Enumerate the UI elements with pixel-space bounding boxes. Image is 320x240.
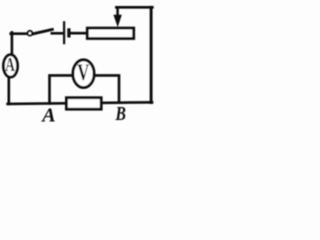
switch S blade [33, 29, 53, 34]
svg-text:V: V [77, 60, 89, 85]
battery short plate [67, 28, 70, 37]
rheostat arrow head [113, 15, 121, 27]
battery long plate [63, 21, 65, 44]
rheostat arrow shaft [116, 7, 119, 17]
resistor R body [66, 98, 101, 110]
battery cell [64, 21, 69, 44]
wire switch to battery [52, 32, 64, 35]
wire top-right horizontal [116, 6, 152, 9]
wire battery to rheostat [70, 32, 87, 35]
voltmeter V1 body [73, 60, 94, 88]
rheostat body [87, 28, 133, 38]
wire top-left horizontal [11, 32, 27, 35]
switch S terminal [28, 31, 33, 36]
wire left vertical lower [8, 77, 11, 104]
svg-text:A: A [40, 105, 55, 127]
wire bottom horizontal [8, 102, 152, 104]
svg-text:B: B [115, 102, 126, 124]
svg-text:A: A [5, 54, 15, 76]
wire voltmeter left branch [50, 75, 73, 103]
wire right vertical [150, 7, 153, 102]
wire left vertical upper [11, 32, 14, 54]
wire voltmeter right branch [94, 75, 119, 102]
ammeter A1 body [3, 55, 17, 77]
